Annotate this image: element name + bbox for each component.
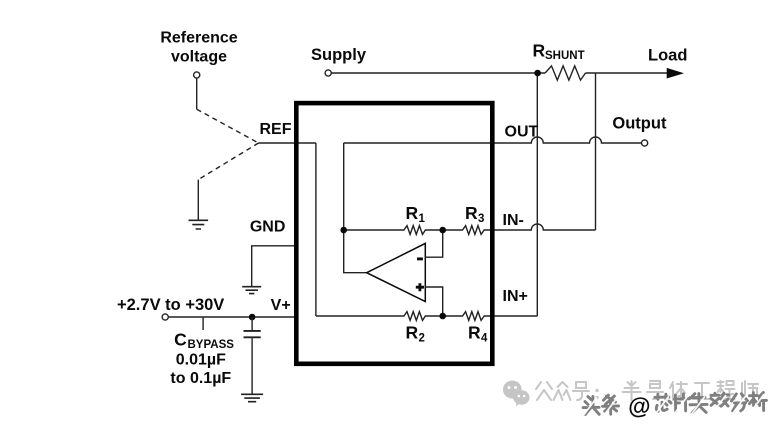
- svg-text:BYPASS: BYPASS: [188, 339, 235, 351]
- wire op-amp plus input: [425, 287, 442, 316]
- svg-text:R: R: [406, 203, 419, 223]
- terminal V+ supply: [162, 314, 168, 320]
- wire supply to R_SHUNT: [331, 72, 545, 74]
- svg-text:Output: Output: [612, 115, 667, 133]
- watermark white emboss slashes: [583, 394, 764, 416]
- svg-text:REF: REF: [260, 121, 292, 138]
- svg-text:V+: V+: [271, 297, 291, 314]
- label C_BYPASS: [174, 330, 234, 352]
- svg-text:+2.7V to +30V: +2.7V to +30V: [117, 296, 224, 314]
- svg-text:IN-: IN-: [503, 212, 524, 229]
- label R1: [406, 203, 426, 225]
- watermark dark text toutiao at xinpian shixiao fenxi: [583, 390, 767, 419]
- svg-text:SHUNT: SHUNT: [545, 50, 585, 62]
- op-amp output wire to feedback node: [344, 143, 367, 273]
- dashed wire reference to REF node: [197, 109, 259, 143]
- dashed wire REF node to ground branch: [198, 143, 258, 180]
- wire OUT line with crossover hops: [344, 137, 642, 143]
- junction dot feedback left: [340, 227, 347, 234]
- svg-text:0.01µF: 0.01µF: [176, 351, 226, 368]
- op-amp minus input symbol: [417, 257, 423, 260]
- svg-text:@: @: [628, 392, 651, 418]
- wire IN- line with R1 R3 and hop: [344, 224, 596, 234]
- ground (reference branch): [189, 220, 209, 229]
- load arrow: [667, 68, 684, 79]
- wire GND pin: [252, 246, 297, 287]
- junction dot V+ / bypass: [249, 314, 256, 321]
- svg-text:1: 1: [419, 213, 426, 225]
- op-amp plus input symbol: [416, 283, 424, 291]
- leader tick C_BYPASS: [202, 318, 204, 331]
- svg-text:4: 4: [481, 333, 488, 345]
- svg-text:2: 2: [419, 333, 425, 345]
- wire down to reference ground: [197, 180, 199, 221]
- ground (bypass capacitor): [241, 394, 263, 401]
- label R4: [468, 323, 488, 345]
- svg-text:OUT: OUT: [505, 123, 539, 140]
- svg-text:Reference: Reference: [160, 29, 237, 46]
- svg-text:GND: GND: [250, 219, 286, 236]
- wire V+ supply: [168, 316, 294, 318]
- label Reference voltage: [160, 29, 237, 65]
- svg-text:Supply: Supply: [311, 46, 367, 64]
- wire IN+ line with R2 R4: [316, 312, 537, 321]
- wire REF into box: [259, 142, 316, 144]
- svg-text:3: 3: [478, 213, 484, 225]
- svg-text:Load: Load: [648, 47, 687, 65]
- wire op-amp minus input: [425, 230, 442, 257]
- capacitor C_BYPASS: [244, 317, 261, 394]
- terminal reference voltage: [194, 72, 200, 78]
- terminal output: [642, 140, 648, 146]
- terminal supply: [325, 70, 331, 76]
- ground (GND pin): [242, 287, 261, 294]
- svg-text:voltage: voltage: [171, 48, 227, 65]
- wire from reference terminal down: [196, 78, 198, 109]
- label R2: [406, 323, 425, 345]
- svg-text:R: R: [406, 323, 419, 343]
- junction dot R2-R4 plus node: [439, 313, 446, 320]
- junction dot supply / R_SHUNT / sense: [534, 70, 541, 77]
- svg-text:C: C: [174, 330, 187, 350]
- wire R_SHUNT to load arrow: [586, 72, 669, 74]
- label R3: [465, 203, 484, 225]
- label R_SHUNT: [533, 41, 585, 62]
- IC box U1: [296, 103, 492, 364]
- watermark light text gongzhonghao bandaoti gongchengshi: [536, 381, 758, 400]
- resistor R_SHUNT: [545, 66, 585, 80]
- svg-text:to 0.1µF: to 0.1µF: [170, 370, 231, 387]
- op-amp U1: [367, 243, 426, 301]
- svg-text:IN+: IN+: [503, 288, 528, 305]
- svg-text:R: R: [533, 41, 546, 61]
- junction dot R1-R3 minus node: [439, 227, 446, 234]
- svg-text:R: R: [468, 323, 481, 343]
- watermark wechat icon: [503, 381, 530, 407]
- wire vertical load-side to IN-: [595, 73, 597, 230]
- svg-text:R: R: [465, 203, 478, 223]
- wire vertical supply-side to IN+: [536, 73, 538, 316]
- wire REF internal vertical: [315, 143, 317, 316]
